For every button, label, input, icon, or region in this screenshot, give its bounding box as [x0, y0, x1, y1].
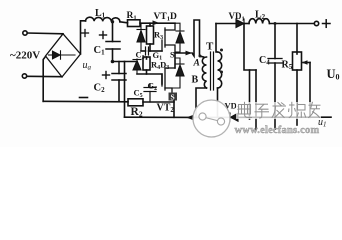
svg-text:C2: C2 [94, 83, 106, 95]
minus mark [80, 97, 88, 99]
inductor L2 [249, 19, 269, 24]
svg-text:~220V: ~220V [10, 50, 40, 62]
svg-text:VT1D: VT1D [154, 12, 177, 23]
svg-text:C1: C1 [94, 45, 106, 57]
resistor R4 [143, 57, 150, 74]
wire R5 down [296, 70, 298, 125]
node dot C4 top [274, 22, 277, 25]
input terminal bottom [22, 74, 26, 78]
wire secondary bottom down [217, 88, 219, 117]
watermark characters [236, 102, 321, 119]
wire [27, 32, 63, 35]
wire VT2 source down [173, 101, 175, 118]
transformer secondary winding [218, 52, 222, 88]
polarity dot primary [199, 55, 202, 58]
polarity dot secondary top [220, 49, 223, 52]
wire midpoint to gate network [113, 61, 138, 63]
wire midpoint down to VT2 [174, 53, 176, 68]
label S2 boxed [169, 93, 178, 102]
bottom return wire right part [193, 116, 331, 118]
svg-text:L2: L2 [255, 10, 266, 22]
wire primary bottom down [196, 88, 207, 117]
diode VD2 on bottom wire [230, 113, 238, 121]
diode D3 [133, 59, 141, 74]
hairpin wire to transformer [192, 20, 204, 57]
svg-text:VD1: VD1 [229, 11, 245, 23]
svg-text:R5: R5 [282, 60, 293, 72]
watermark logo circle [193, 100, 230, 137]
arrow on rail [153, 20, 160, 25]
wire secondary top up [216, 24, 218, 53]
wire top rail to block [140, 22, 175, 24]
diode VD1 [236, 19, 244, 28]
gate wire VT2 [137, 74, 162, 84]
input terminal top [23, 31, 27, 35]
bridge rectifier [46, 34, 81, 77]
wire to VD1 [216, 23, 236, 25]
diode D2 [137, 23, 145, 51]
capacitor C3 [146, 47, 149, 55]
plus mark C1 [100, 32, 107, 39]
bottom bus wire [43, 100, 128, 103]
wire [244, 23, 249, 25]
plus mark bridge output [82, 30, 89, 37]
inductor L1 [86, 17, 120, 22]
svg-text:U0: U0 [327, 67, 340, 82]
arrow right [186, 51, 193, 56]
plus mark C2 [103, 72, 110, 79]
svg-text:VT2: VT2 [157, 103, 175, 115]
wire C1 to C2 [112, 49, 114, 62]
mosfet VT2 [162, 68, 175, 94]
wire C2 down to bus [118, 80, 120, 102]
wire C4 down [274, 63, 276, 129]
resistor R3 [147, 23, 154, 51]
resistor R5 branch [296, 24, 298, 55]
gate wire VT1 [141, 50, 146, 52]
midpoint wire with arrow [175, 52, 190, 54]
svg-text:G2: G2 [148, 81, 158, 93]
node dot C1 C2 midpoint [111, 60, 115, 64]
capacitor C5 [144, 84, 156, 102]
svg-text:ua: ua [83, 60, 92, 72]
capacitor C1 [106, 42, 120, 50]
wire long vertical feedback [124, 62, 126, 118]
body diode VT2 [172, 58, 184, 88]
plus mark output [323, 20, 331, 28]
bridge diode [49, 51, 76, 59]
svg-text:L1: L1 [95, 8, 106, 19]
bottom return wire [125, 116, 196, 118]
potentiometer arrow [302, 60, 310, 117]
svg-text:B: B [192, 75, 199, 86]
svg-text:R3: R3 [154, 30, 163, 42]
wire DC plus up from right vertex [81, 21, 86, 54]
transformer core [211, 52, 214, 90]
resistor R1 [128, 20, 141, 27]
mosfet VT1 [162, 23, 175, 53]
wire [27, 75, 62, 77]
wire to output [269, 23, 314, 25]
snubber branch pair down [249, 70, 251, 119]
capacitor C2 [112, 62, 126, 81]
wire DC minus down from left vertex [43, 57, 45, 102]
resistor R5 [293, 52, 302, 70]
svg-text:www.elecfans.com: www.elecfans.com [235, 125, 320, 136]
transformer primary winding [202, 57, 206, 88]
resistor R2 [128, 99, 143, 106]
capacitor C1 wire [112, 22, 114, 42]
svg-text:T: T [206, 41, 214, 53]
svg-text:R4D3: R4D3 [151, 60, 169, 72]
capacitor C4 branch [274, 24, 276, 59]
svg-text:A: A [193, 59, 200, 69]
body diode VT1 [175, 23, 184, 52]
capacitor C4 [268, 59, 282, 64]
snubber branch vertical [244, 24, 256, 71]
wire bus after R2 [143, 101, 174, 103]
svg-text:C4: C4 [259, 55, 270, 67]
polarity dot secondary mid [220, 71, 223, 74]
svg-text:C5: C5 [134, 88, 143, 100]
arrow left on bottom wire [186, 115, 193, 120]
svg-text:R1: R1 [127, 11, 137, 22]
output terminal [314, 21, 318, 25]
wire [120, 22, 128, 23]
